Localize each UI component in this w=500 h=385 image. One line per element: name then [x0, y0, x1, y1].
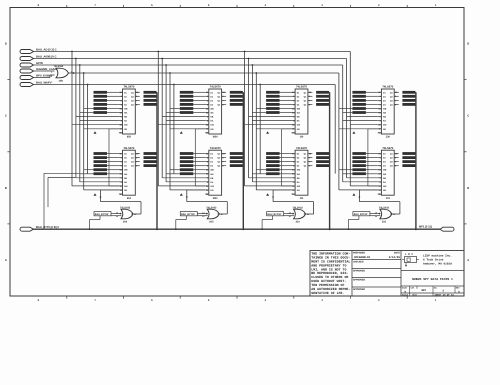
- wire write-enable to top IC column 4: [368, 185, 378, 187]
- address stubs column 1: [76, 116, 119, 118]
- net label BD2: [180, 160, 194, 163]
- net label BD2: [94, 160, 108, 163]
- wire byte-select riser column 1: [89, 220, 91, 230]
- or-gate 210 (74LS032) column 3: [294, 209, 306, 219]
- svg-text:GW: GW: [210, 124, 214, 127]
- svg-text:GW: GW: [383, 185, 387, 188]
- net label BD4: [266, 168, 280, 171]
- net label BD5: [266, 172, 280, 175]
- net label TQ3: [144, 103, 157, 106]
- connector tag BAU_AD [0 3] C: [20, 50, 34, 54]
- connector tag IGGGME_LGAD’: [20, 69, 34, 73]
- svg-text:REF: REF: [422, 289, 427, 292]
- svg-text:GW: GW: [383, 124, 387, 127]
- net label BD2: [266, 160, 280, 163]
- svg-text:WA: WA: [297, 112, 301, 115]
- svg-text:WA: WA: [210, 173, 214, 176]
- title block drawing title: [401, 285, 464, 287]
- wire output collector column 1: [156, 92, 158, 229]
- wire gate 215 output loop: [390, 213, 400, 215]
- svg-text:APPROVED: APPROVED: [353, 278, 366, 281]
- address stubs column 4: [347, 116, 378, 118]
- net label BQ2: [144, 160, 157, 163]
- net label TD3: [266, 103, 280, 106]
- net label TD4: [266, 107, 280, 110]
- net label TQ2: [230, 99, 243, 102]
- svg-text:WB: WB: [383, 169, 387, 172]
- or-gate 32B (74LS032): [56, 68, 69, 78]
- net label TD0: [266, 91, 280, 94]
- svg-text:BAU_BYT00’: BAU_BYT00’: [95, 213, 109, 216]
- net label BD3: [266, 164, 280, 167]
- title block size/ref row: [401, 292, 464, 294]
- net label BQ2: [402, 160, 415, 163]
- svg-text:SHEET 29 OF 51: SHEET 29 OF 51: [435, 294, 455, 297]
- svg-text:APPROVED: APPROVED: [353, 269, 366, 272]
- svg-text:A: A: [5, 259, 7, 262]
- net label TQ0: [144, 91, 157, 94]
- net label TD5: [352, 111, 366, 114]
- svg-text:WA: WA: [297, 173, 301, 176]
- title block LMI logo cell: [401, 270, 464, 272]
- svg-text:WB: WB: [210, 169, 214, 172]
- net label BD4: [180, 168, 194, 171]
- net label BQ3: [230, 164, 243, 167]
- net label TQ1: [230, 95, 243, 98]
- svg-text:32B: 32B: [59, 80, 64, 83]
- wire left riser 1: [44, 172, 79, 174]
- net label TQ3: [402, 103, 415, 106]
- net label TD0: [180, 91, 194, 94]
- net label TD0: [352, 91, 366, 94]
- wire write-enable to top IC column 3: [282, 185, 292, 187]
- net label BQ2: [316, 160, 329, 163]
- svg-text:CHECKED: CHECKED: [353, 260, 364, 263]
- address tap bus column 1: [71, 52, 73, 187]
- svg-text:WB: WB: [124, 108, 128, 111]
- svg-text:GW: GW: [124, 124, 128, 127]
- wire left riser 2: [48, 176, 75, 178]
- net label BD0: [94, 152, 108, 155]
- net label BD5: [180, 172, 194, 175]
- connector tag BAU_WAPV’: [20, 83, 34, 87]
- svg-text:74LS670: 74LS670: [382, 86, 393, 89]
- svg-text:651: 651: [127, 197, 132, 200]
- svg-text:8/18/86: 8/18/86: [389, 256, 401, 259]
- svg-text:200: 200: [123, 221, 128, 224]
- net label TQ0: [316, 91, 329, 94]
- svg-text:APPROVED: APPROVED: [353, 288, 366, 291]
- svg-text:NUBUS SPY DATA PATHS 1: NUBUS SPY DATA PATHS 1: [412, 277, 453, 281]
- svg-text:PREPARED: PREPARED: [353, 251, 366, 254]
- net label TQ1: [316, 95, 329, 98]
- wire bottom bus MF1[0:31]: [34, 228, 441, 230]
- svg-text:74LS670: 74LS670: [210, 86, 221, 89]
- svg-text:WB: WB: [210, 108, 214, 111]
- svg-text:NO.: NO.: [434, 287, 438, 290]
- net label TQ2: [144, 99, 157, 102]
- svg-text:J31: J31: [386, 197, 391, 200]
- address tap bus column 3: [244, 52, 246, 187]
- or-gate 200 (74LS032) column 1: [121, 209, 133, 219]
- svg-text:D: D: [467, 43, 469, 46]
- net label BD4: [352, 168, 366, 171]
- svg-text:C: C: [5, 115, 7, 118]
- junction arrow column 2: [180, 131, 183, 134]
- net label TD5: [266, 111, 280, 114]
- svg-text:BAU_BYT01’: BAU_BYT01’: [181, 213, 195, 216]
- net label BD0: [266, 152, 280, 155]
- net label BD5: [352, 172, 366, 175]
- svg-text:GW: GW: [297, 124, 301, 127]
- net label TD1: [180, 95, 194, 98]
- svg-text:74LS670: 74LS670: [210, 147, 221, 150]
- svg-text:SENTATIVE OF LMI.: SENTATIVE OF LMI.: [311, 291, 344, 295]
- signal bus wires from left connectors: [34, 51, 351, 53]
- svg-text:B: B: [5, 187, 7, 190]
- wire gate 215 inputs: [370, 213, 381, 215]
- wire output collector column 2: [242, 92, 244, 229]
- svg-text:SIZE: SIZE: [402, 287, 408, 290]
- net label BD0: [180, 152, 194, 155]
- net label BQ2: [230, 160, 243, 163]
- junction arrow column 3: [266, 131, 269, 134]
- svg-text:DATE: DATE: [394, 251, 401, 254]
- svg-text:WA: WA: [383, 173, 387, 176]
- svg-text:I30: I30: [300, 136, 304, 139]
- address stubs column 3: [249, 116, 292, 118]
- net label TQ2: [402, 99, 415, 102]
- net label BQ1: [316, 156, 329, 159]
- net label BAU_BYT02: [267, 212, 284, 216]
- net label TD2: [94, 99, 108, 102]
- net label TD4: [180, 107, 194, 110]
- net label TD1: [94, 95, 108, 98]
- wire output collector column 4: [415, 92, 417, 229]
- net label BD1: [94, 156, 108, 159]
- svg-text:L M I: L M I: [405, 253, 413, 256]
- svg-text:215: 215: [382, 221, 387, 224]
- net label BD3: [352, 164, 366, 167]
- net label TD2: [266, 99, 280, 102]
- wire gate 210 inputs: [284, 213, 295, 215]
- net label BD0: [352, 152, 366, 155]
- svg-text:J30: J30: [386, 136, 391, 139]
- wire gate 205 output loop: [218, 213, 228, 215]
- svg-text:WB: WB: [383, 108, 387, 111]
- wire gate 205 inputs: [197, 213, 208, 215]
- svg-text:M30: M30: [213, 136, 218, 139]
- connector tag GP00: [20, 63, 34, 67]
- net label BQ3: [144, 164, 157, 167]
- svg-text:74LS032: 74LS032: [293, 206, 304, 209]
- svg-text:74LS670: 74LS670: [123, 86, 134, 89]
- net label BQ1: [230, 156, 243, 159]
- svg-text:D: D: [5, 43, 7, 46]
- net label BD3: [180, 164, 194, 167]
- net label BQ1: [144, 156, 157, 159]
- svg-text:DMFRANKLIN: DMFRANKLIN: [354, 256, 371, 259]
- net label BQ0: [230, 152, 243, 155]
- svg-text:GW: GW: [124, 185, 128, 188]
- wire write-enable to top IC column 2: [195, 185, 205, 187]
- net label BD1: [266, 156, 280, 159]
- address tap bus column 2: [157, 52, 159, 187]
- junction arrow column 4: [352, 131, 355, 134]
- net label BQ0: [144, 152, 157, 155]
- svg-text:C: C: [467, 115, 469, 118]
- wire gate 200 output loop: [131, 213, 141, 215]
- svg-text:650: 650: [127, 136, 132, 139]
- net label BQ0: [316, 152, 329, 155]
- wire byte-select riser column 4: [347, 220, 349, 230]
- connector tag BPV_EABL’: [20, 76, 34, 80]
- connector tag MF1 [0:31] (right): [440, 227, 454, 231]
- net label BD5: [94, 172, 108, 175]
- svg-text:BAU_BYT02’: BAU_BYT02’: [267, 213, 281, 216]
- net label BQ0: [402, 152, 415, 155]
- net label TD0: [94, 91, 108, 94]
- net label TQ1: [144, 95, 157, 98]
- net label TQ2: [316, 99, 329, 102]
- net label TD3: [94, 103, 108, 106]
- svg-text:Andover, MA 01810: Andover, MA 01810: [423, 262, 452, 266]
- svg-text:74LS670: 74LS670: [382, 147, 393, 150]
- or-gate 205 (74LS032) column 2: [207, 209, 219, 219]
- net label TQ3: [230, 103, 243, 106]
- svg-text:6 Tech Drive: 6 Tech Drive: [423, 258, 444, 262]
- svg-text:74LS032: 74LS032: [206, 206, 217, 209]
- border frame: [10, 8, 464, 297]
- svg-text:205: 205: [209, 221, 214, 224]
- wire gate 210 output loop: [304, 213, 314, 215]
- svg-text:WA: WA: [124, 112, 128, 115]
- wire gate 32B output: [69, 72, 339, 74]
- net label TQ3: [316, 103, 329, 106]
- svg-text:A: A: [467, 259, 469, 262]
- net label TD2: [352, 99, 366, 102]
- svg-text:74LS032: 74LS032: [54, 65, 64, 68]
- wire byte-select riser column 3: [261, 220, 263, 230]
- svg-text:I31: I31: [300, 197, 304, 200]
- svg-text:WA: WA: [210, 112, 214, 115]
- title block: [310, 251, 464, 297]
- svg-text:BAU_BYT03’: BAU_BYT03’: [354, 213, 368, 216]
- svg-text:B: B: [467, 187, 469, 190]
- svg-text:74LS670: 74LS670: [296, 86, 307, 89]
- svg-text:74LS032: 74LS032: [120, 206, 131, 209]
- svg-text:CAT.: CAT.: [411, 287, 416, 290]
- net label TD4: [352, 107, 366, 110]
- net label BQ3: [402, 164, 415, 167]
- net label TD5: [94, 111, 108, 114]
- net label BAU_BYT01: [180, 212, 197, 216]
- or-gate 215 (74LS032) column 4: [380, 209, 392, 219]
- junction arrow column 1: [94, 131, 97, 134]
- address stubs column 2: [162, 116, 205, 118]
- svg-text:GW: GW: [210, 185, 214, 188]
- net label TD2: [180, 99, 194, 102]
- net label TQ0: [402, 91, 415, 94]
- svg-text:MF1 [0 31]: MF1 [0 31]: [419, 226, 432, 229]
- net label TD1: [266, 95, 280, 98]
- svg-text:M31: M31: [213, 197, 218, 200]
- net label TD5: [180, 111, 194, 114]
- net label BD1: [352, 156, 366, 159]
- zone ticks and labels: [5, 4, 469, 302]
- svg-text:N/A: N/A: [413, 294, 418, 297]
- wire gate 200 inputs: [111, 213, 122, 215]
- net label BAU_BYT00: [94, 212, 111, 216]
- net label BAU_BYT03: [353, 212, 370, 216]
- svg-text:74LS032: 74LS032: [379, 206, 390, 209]
- wire byte-select riser column 2: [175, 220, 177, 230]
- svg-text:74LS670: 74LS670: [123, 147, 134, 150]
- svg-text:GW: GW: [297, 185, 301, 188]
- net label BQ1: [402, 156, 415, 159]
- net label BD2: [352, 160, 366, 163]
- net label TD3: [180, 103, 194, 106]
- wire output collector column 3: [329, 92, 331, 229]
- net label BD1: [180, 156, 194, 159]
- svg-text:210: 210: [296, 221, 301, 224]
- net label TD4: [94, 107, 108, 110]
- address tap bus column 4: [349, 52, 351, 187]
- connector tag BAU_BYT0 bus (left): [20, 227, 34, 231]
- svg-text:WA: WA: [383, 112, 387, 115]
- svg-text:SCALE: SCALE: [402, 294, 409, 297]
- svg-text:LISP machine Inc.: LISP machine Inc.: [423, 254, 452, 258]
- net label TD3: [352, 103, 366, 106]
- svg-text:WA: WA: [124, 173, 128, 176]
- net label TQ1: [402, 95, 415, 98]
- net label TQ0: [230, 91, 243, 94]
- svg-text:WB: WB: [297, 169, 301, 172]
- net label BQ3: [316, 164, 329, 167]
- svg-text:WB: WB: [124, 169, 128, 172]
- connector tag BAU_A00B [0 C: [20, 57, 34, 61]
- net label BD3: [94, 164, 108, 167]
- svg-text:74LS670: 74LS670: [296, 147, 307, 150]
- wire write-enable to top IC column 1: [109, 185, 119, 187]
- svg-text:WB: WB: [297, 108, 301, 111]
- net label BD4: [94, 168, 108, 171]
- net label TD1: [352, 95, 366, 98]
